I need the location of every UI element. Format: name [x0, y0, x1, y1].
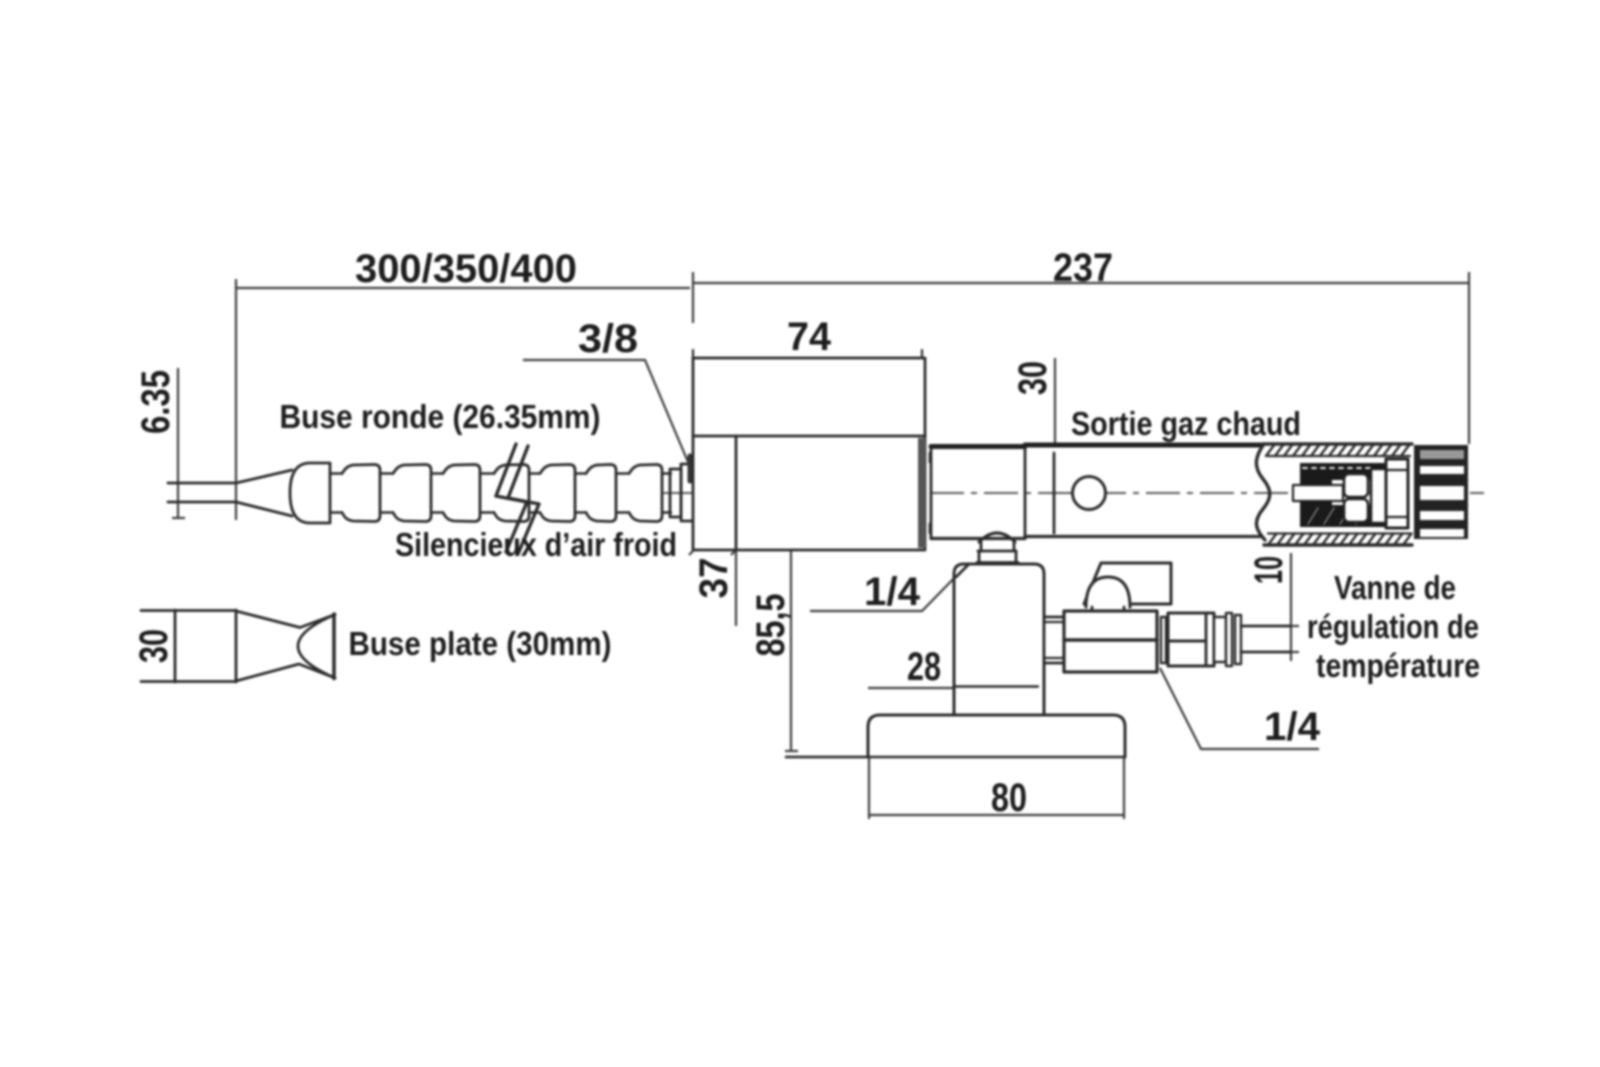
svg-text:Buse ronde (26.35mm): Buse ronde (26.35mm)	[280, 398, 601, 435]
svg-text:Silencieux d’air froid: Silencieux d’air froid	[395, 526, 677, 563]
svg-text:237: 237	[1053, 246, 1113, 290]
svg-text:régulation de: régulation de	[1307, 608, 1479, 645]
svg-text:3/8: 3/8	[578, 317, 638, 361]
svg-text:30: 30	[132, 629, 176, 663]
svg-text:6.35: 6.35	[134, 370, 178, 434]
svg-text:1/4: 1/4	[864, 570, 921, 614]
svg-text:28: 28	[907, 645, 941, 689]
svg-text:Vanne de: Vanne de	[1334, 569, 1456, 606]
svg-text:Buse plate (30mm): Buse plate (30mm)	[349, 625, 612, 662]
svg-text:37: 37	[692, 558, 736, 599]
svg-text:80: 80	[991, 776, 1027, 820]
svg-text:Sortie gaz chaud: Sortie gaz chaud	[1071, 405, 1301, 442]
svg-text:10: 10	[1247, 556, 1291, 584]
svg-text:30: 30	[1011, 361, 1055, 395]
svg-text:74: 74	[787, 315, 832, 359]
svg-text:1/4: 1/4	[1264, 705, 1321, 749]
svg-text:300/350/400: 300/350/400	[355, 247, 577, 291]
svg-text:température: température	[1316, 647, 1480, 684]
svg-text:85,5: 85,5	[749, 594, 793, 657]
